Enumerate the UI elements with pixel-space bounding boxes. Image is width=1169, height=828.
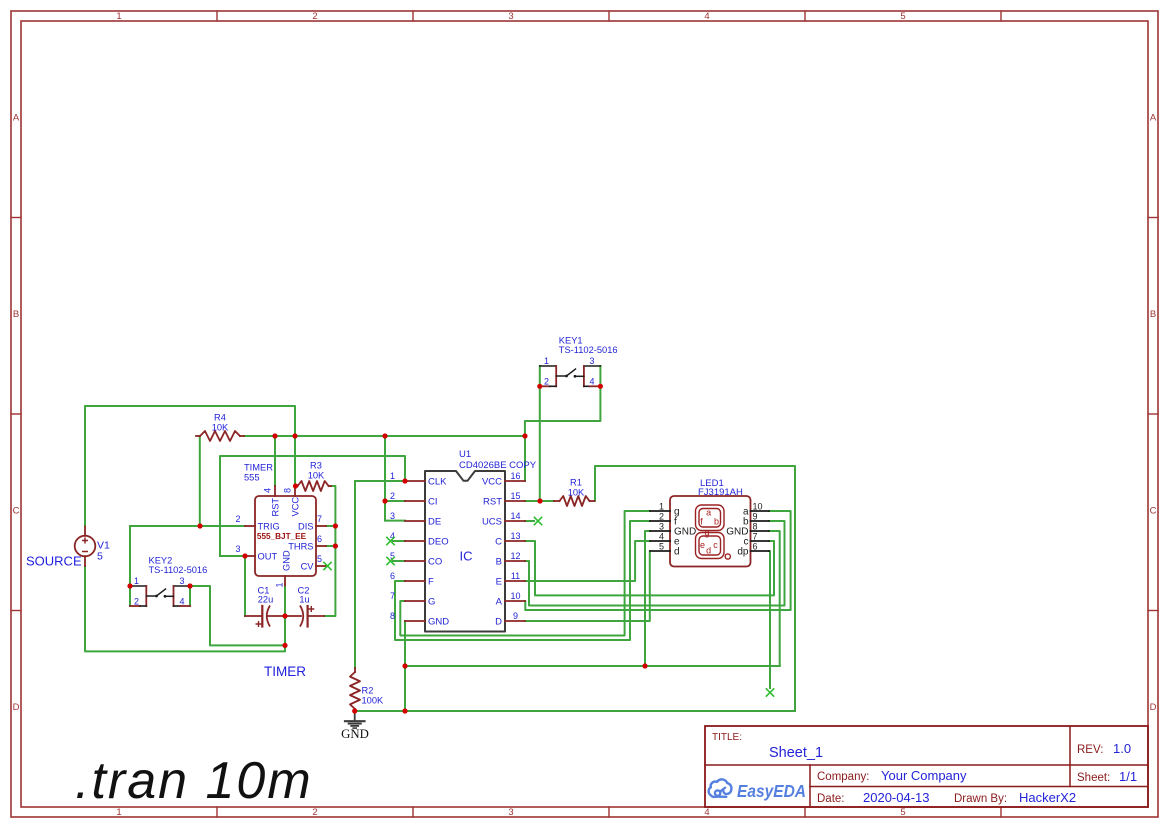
- wire dp nc: [769, 551, 770, 688]
- svg-text:1.0: 1.0: [1113, 741, 1131, 756]
- svg-text:Sheet_1: Sheet_1: [769, 745, 823, 761]
- wire THRS: [326, 545, 335, 547]
- svg-text:12: 12: [510, 551, 520, 561]
- wire F to f: [395, 521, 650, 640]
- wire OUT to U1 CLK route: [220, 456, 405, 556]
- svg-text:CV: CV: [301, 562, 315, 572]
- svg-text:CD4026BE COPY: CD4026BE COPY: [459, 460, 537, 471]
- svg-text:7: 7: [753, 532, 758, 542]
- svg-text:TIMER: TIMER: [264, 664, 306, 679]
- svg-text:d: d: [706, 546, 711, 556]
- svg-text:CO: CO: [428, 556, 442, 567]
- svg-text:5: 5: [317, 554, 322, 564]
- svg-text:6: 6: [390, 571, 395, 581]
- svg-text:G: G: [428, 596, 435, 607]
- wire C13 to c: [525, 541, 774, 595]
- wire CLK line: [355, 480, 405, 482]
- svg-text:2: 2: [312, 807, 317, 818]
- LED1 FJ3191AH 7-segment: [670, 496, 751, 567]
- svg-text:22u: 22u: [258, 595, 274, 605]
- ground symbol: [354, 711, 356, 721]
- wire LED GND3 down: [645, 531, 650, 666]
- svg-text:GND: GND: [341, 727, 369, 741]
- EasyEDA logo: [709, 779, 732, 797]
- svg-text:FJ3191AH: FJ3191AH: [698, 487, 743, 498]
- svg-text:GND: GND: [428, 616, 449, 627]
- svg-text:9: 9: [753, 512, 758, 522]
- wire 555 VCC8 up: [294, 436, 296, 486]
- svg-text:OUT: OUT: [258, 552, 278, 562]
- svg-text:3: 3: [235, 544, 240, 554]
- svg-text:R3: R3: [310, 461, 322, 471]
- svg-text:5: 5: [659, 542, 664, 552]
- svg-text:1: 1: [275, 582, 285, 587]
- svg-text:1: 1: [544, 356, 549, 366]
- svg-text:14: 14: [510, 511, 520, 521]
- svg-text:C: C: [13, 506, 20, 517]
- wire 555 GND to V1-: [85, 566, 285, 651]
- wire D9 to d: [525, 551, 650, 621]
- pushbutton KEY1: [540, 365, 556, 367]
- wire CI: [385, 500, 405, 502]
- svg-text:6: 6: [753, 542, 758, 552]
- svg-text:g: g: [704, 528, 709, 538]
- wire GND rail y666: [405, 665, 780, 667]
- svg-text:A: A: [496, 596, 503, 607]
- svg-text:555: 555: [244, 473, 260, 483]
- svg-text:1: 1: [116, 11, 121, 22]
- svg-text:4: 4: [179, 597, 184, 607]
- svg-text:10K: 10K: [212, 423, 229, 433]
- svg-text:2: 2: [134, 597, 139, 607]
- svg-text:5: 5: [900, 807, 905, 818]
- svg-text:VCC: VCC: [482, 476, 502, 487]
- svg-text:EasyEDA: EasyEDA: [737, 781, 806, 801]
- svg-text:10K: 10K: [568, 488, 585, 498]
- resistor R2: [350, 672, 360, 709]
- svg-text:R2: R2: [362, 686, 374, 696]
- 7seg digit: [696, 505, 731, 559]
- svg-text:15: 15: [510, 491, 520, 501]
- svg-text:UCS: UCS: [482, 516, 502, 527]
- svg-text:1/1: 1/1: [1119, 769, 1137, 784]
- svg-text:7: 7: [317, 514, 322, 524]
- svg-text:3: 3: [508, 807, 513, 818]
- wire 555 RST4 up: [274, 436, 276, 486]
- svg-text:C: C: [1150, 506, 1157, 517]
- svg-text:2: 2: [312, 11, 317, 22]
- svg-text:D: D: [495, 616, 502, 627]
- svg-text:c: c: [713, 540, 718, 550]
- svg-text:U1: U1: [459, 449, 471, 460]
- svg-text:5: 5: [97, 551, 103, 563]
- svg-text:b: b: [714, 517, 719, 527]
- svg-text:R1: R1: [570, 478, 582, 488]
- svg-text:TS-1102-5016: TS-1102-5016: [559, 345, 618, 355]
- resistor R4: [200, 431, 240, 441]
- wire RST15 to R1: [525, 500, 554, 502]
- wire OUT to C1: [244, 556, 246, 616]
- svg-text:A: A: [1150, 113, 1157, 124]
- svg-text:TIMER: TIMER: [244, 463, 273, 473]
- wire UCS nc: [525, 520, 534, 522]
- svg-text:5: 5: [900, 11, 905, 22]
- svg-text:d: d: [674, 546, 680, 557]
- svg-text:SOURCE: SOURCE: [26, 554, 82, 569]
- svg-text:e: e: [700, 540, 705, 550]
- svg-text:2: 2: [544, 377, 549, 387]
- junction dots: [197, 523, 202, 528]
- svg-text:THRS: THRS: [288, 542, 313, 552]
- wire VCC16 up: [524, 436, 526, 481]
- svg-text:3: 3: [659, 522, 664, 532]
- wire KEY2 pin3 route: [190, 586, 285, 645]
- svg-text:dp: dp: [737, 546, 749, 557]
- wire G to g: [400, 511, 650, 636]
- svg-text:RST: RST: [270, 498, 280, 517]
- wire OUT line: [220, 555, 245, 557]
- svg-text:.tran 10m: .tran 10m: [75, 752, 313, 810]
- wire VCC rail y436: [244, 435, 525, 437]
- svg-text:IC: IC: [460, 549, 473, 564]
- svg-text:9: 9: [513, 611, 518, 621]
- svg-text:TITLE:: TITLE:: [712, 732, 742, 743]
- capacitor C1 22u: [245, 615, 262, 617]
- svg-text:6: 6: [317, 534, 322, 544]
- wire VCC to CI/DE vertical: [384, 436, 386, 521]
- svg-text:A: A: [13, 113, 20, 124]
- U1 pin stubs: [405, 480, 425, 482]
- pushbutton KEY2: [130, 585, 146, 587]
- svg-text:3: 3: [179, 576, 184, 586]
- svg-text:7: 7: [390, 591, 395, 601]
- wire DEO nc: [393, 540, 405, 542]
- svg-text:3: 3: [390, 511, 395, 521]
- svg-text:D: D: [1150, 702, 1157, 713]
- wire TRIG line: [130, 525, 245, 527]
- svg-text:4: 4: [659, 532, 664, 542]
- wire CLK to R2: [354, 481, 356, 668]
- wire B12 to b: [525, 521, 785, 606]
- wire LED GND8 down: [769, 531, 780, 666]
- svg-text:CI: CI: [428, 496, 438, 507]
- wire R4 left drop to TRIG: [199, 436, 201, 526]
- svg-text:555_BJT_EE: 555_BJT_EE: [257, 532, 307, 541]
- svg-text:3: 3: [508, 11, 513, 22]
- resistor R1: [560, 496, 590, 506]
- svg-text:B: B: [13, 309, 19, 320]
- wire A10 to a: [525, 511, 791, 610]
- svg-text:Drawn By:: Drawn By:: [954, 793, 1007, 805]
- svg-text:100K: 100K: [362, 696, 385, 706]
- svg-text:R4: R4: [214, 413, 226, 423]
- timer IC 555_BJT_EE: [255, 496, 316, 576]
- svg-text:10K: 10K: [308, 471, 325, 481]
- wire DIS: [326, 525, 335, 527]
- svg-text:DIS: DIS: [298, 522, 314, 532]
- wire DE: [385, 520, 405, 522]
- svg-text:10: 10: [753, 502, 763, 512]
- no-connect flags: [386, 537, 394, 545]
- capacitor C2 1u: [285, 615, 301, 617]
- wire R3 right drop to C2: [324, 486, 335, 616]
- svg-text:a: a: [706, 508, 711, 518]
- svg-text:13: 13: [510, 531, 520, 541]
- wire KEY2 right box side: [189, 586, 191, 606]
- svg-text:REV:: REV:: [1077, 744, 1103, 756]
- svg-text:RST: RST: [483, 496, 502, 507]
- svg-text:8: 8: [753, 522, 758, 532]
- svg-text:8: 8: [283, 488, 293, 493]
- svg-text:2020-04-13: 2020-04-13: [863, 790, 930, 805]
- svg-text:2: 2: [659, 512, 664, 522]
- svg-text:11: 11: [511, 571, 520, 581]
- wire E11 to e: [525, 541, 650, 581]
- voltage source V1: [84, 527, 86, 536]
- wire V1+ top rail to VCC drop: [85, 406, 295, 526]
- svg-text:B: B: [1150, 309, 1156, 320]
- svg-text:8: 8: [390, 611, 395, 621]
- svg-text:10: 10: [510, 591, 520, 601]
- svg-text:16: 16: [510, 471, 520, 481]
- svg-text:CLK: CLK: [428, 476, 447, 487]
- svg-text:1u: 1u: [299, 595, 309, 605]
- svg-text:1: 1: [390, 471, 395, 481]
- svg-text:Sheet:: Sheet:: [1077, 772, 1110, 784]
- svg-text:2: 2: [390, 491, 395, 501]
- svg-text:2: 2: [235, 514, 240, 524]
- svg-text:Your Company: Your Company: [881, 768, 967, 783]
- wire KEY1 left to RST line: [539, 366, 541, 501]
- resistor R3: [298, 481, 329, 491]
- svg-text:DEO: DEO: [428, 536, 449, 547]
- title block: [705, 726, 1148, 807]
- wire U1 GND down: [404, 621, 406, 711]
- wire GND rail y711: [355, 710, 795, 712]
- svg-text:F: F: [428, 576, 434, 587]
- svg-text:E: E: [496, 576, 502, 587]
- svg-text:B: B: [496, 556, 502, 567]
- svg-text:GND: GND: [281, 550, 291, 571]
- wire R1 right loop to GND rail: [595, 466, 796, 711]
- svg-text:C: C: [495, 536, 502, 547]
- svg-text:4: 4: [704, 807, 709, 818]
- svg-text:D: D: [13, 702, 20, 713]
- svg-text:4: 4: [704, 11, 709, 22]
- IC U1 CD4026BE box: [425, 471, 505, 632]
- svg-text:TS-1102-5016: TS-1102-5016: [149, 565, 208, 575]
- svg-text:1: 1: [134, 576, 139, 586]
- svg-text:DE: DE: [428, 516, 441, 527]
- svg-text:1: 1: [659, 502, 664, 512]
- svg-text:HackerX2: HackerX2: [1019, 790, 1076, 805]
- svg-text:Date:: Date:: [817, 793, 845, 805]
- svg-text:VCC: VCC: [290, 497, 300, 517]
- svg-text:Company:: Company:: [817, 771, 869, 783]
- svg-text:4: 4: [589, 377, 594, 387]
- svg-text:TRIG: TRIG: [258, 522, 280, 532]
- wire CO nc: [393, 560, 405, 562]
- wire KEY2 pin1 drop: [129, 526, 131, 606]
- svg-text:3: 3: [589, 356, 594, 366]
- svg-text:4: 4: [263, 488, 273, 493]
- wire KEY1 right to VCC rail: [525, 366, 601, 436]
